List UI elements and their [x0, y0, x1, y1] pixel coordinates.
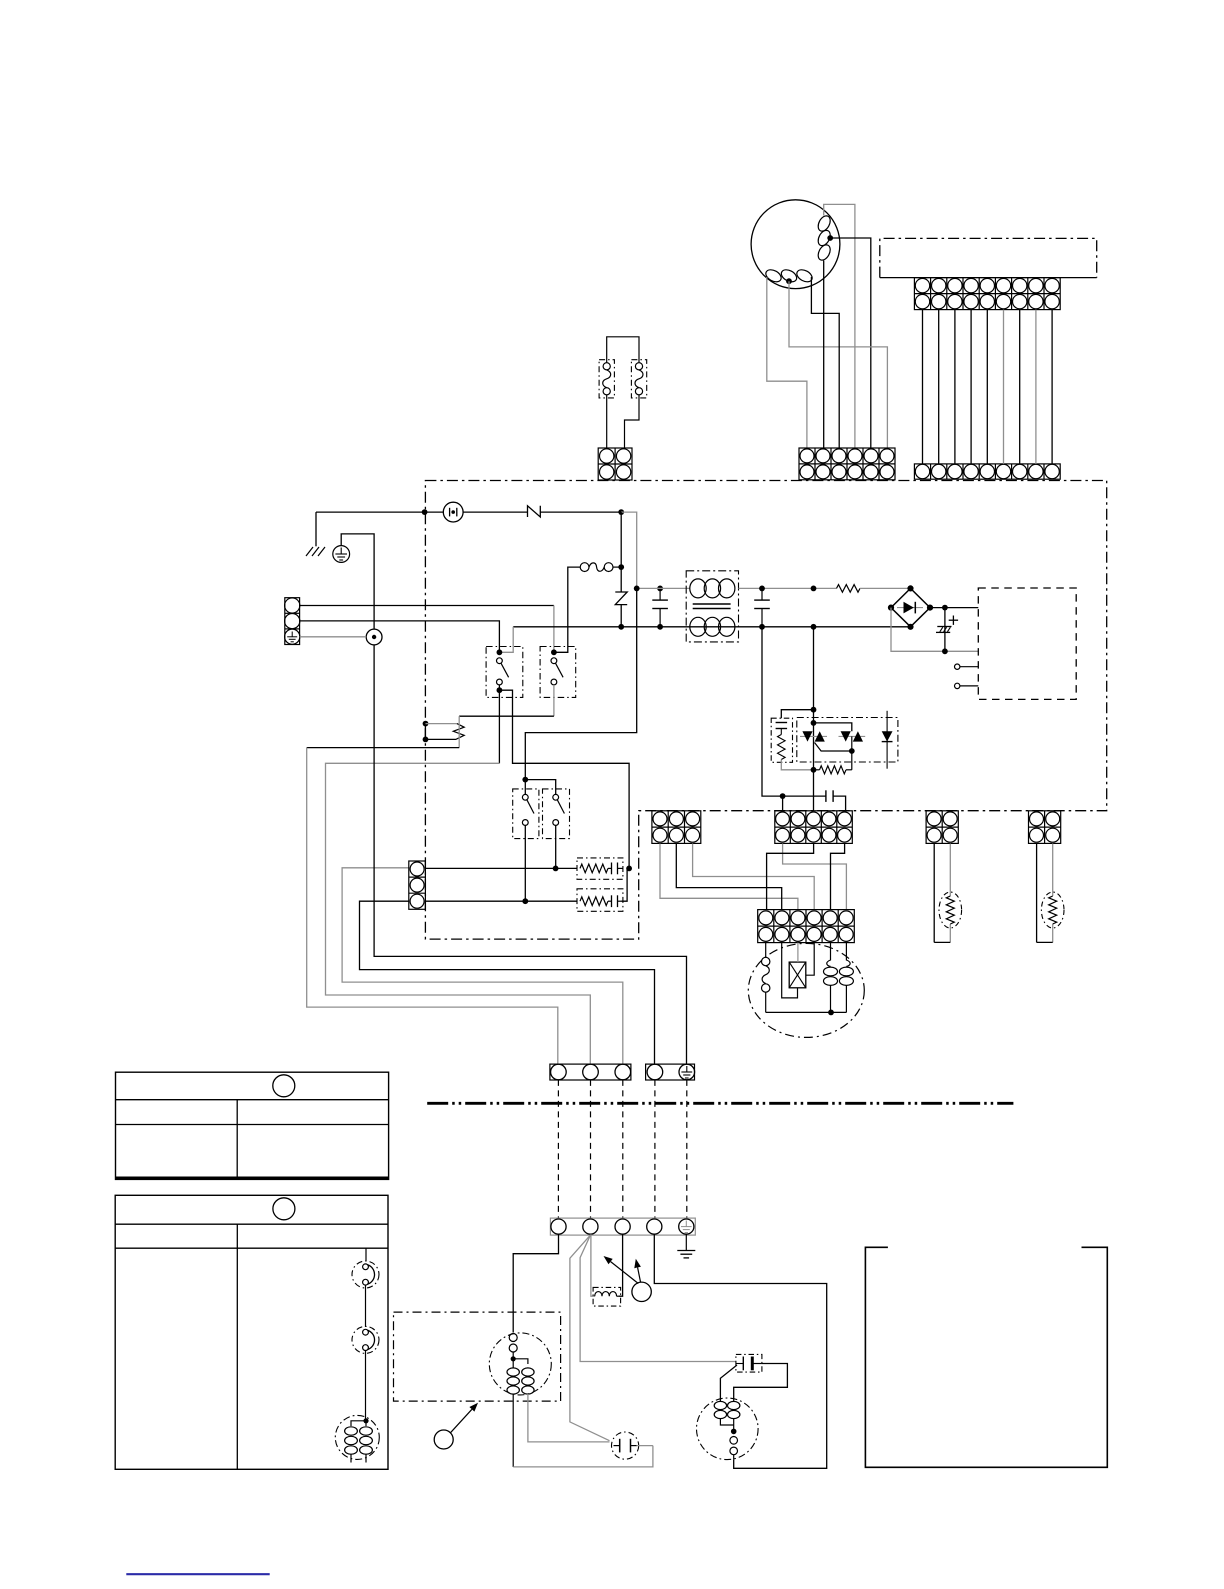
relay switch SW2 box [540, 647, 576, 698]
louvre motor M2 body [697, 1398, 759, 1460]
wire: TB5-3 left run to terminal T4 [360, 901, 655, 1064]
indoor open enclosure [865, 1247, 1107, 1467]
interconnect dashed wire 3 [622, 1080, 624, 1218]
M2 winding A [714, 1401, 726, 1409]
wire: TB5-earth to J1 [300, 636, 367, 638]
compressor terminal block TB8 (6x2) [758, 910, 855, 943]
fuse FUSE1 symbol [443, 502, 463, 522]
wire: TS3-1 to fan motor main [513, 1234, 558, 1332]
connector TB7 (5x2) [775, 811, 853, 844]
table TBL2 frame [115, 1195, 388, 1469]
wire: TB5-1 to switch SW2 [300, 605, 554, 607]
wire: TB3 col6 to TB4 col6 [1003, 310, 1005, 464]
wire: varistor to N bus [620, 605, 622, 627]
junction point J1 (circle-dot) [366, 629, 382, 645]
wire: E1 up and over to junction point J1 [341, 534, 374, 629]
CB1 arrow 1 [611, 1262, 639, 1284]
TBL1 thick bottom [116, 1177, 389, 1180]
louvre capacitor CAP2 box [736, 1354, 762, 1372]
wire: F1 bottom to TB2 col1 [606, 395, 608, 448]
wire: FM tap to TB1 col5 [830, 238, 871, 448]
motor M3 (dash-dot circle) [335, 1415, 379, 1459]
wire: SW1 bottom run to terminal T2 [498, 690, 500, 763]
TBL2 header circle [273, 1198, 295, 1220]
wire: TB6 col1 to compressor protector [660, 844, 798, 910]
earth bars on output [937, 626, 951, 628]
wire: TB3 col4 to TB4 col4 [970, 310, 972, 464]
wire: TB8 col3 to protector [797, 943, 799, 963]
junction dot snubber top [811, 707, 817, 713]
TBL2 column divider [236, 1224, 238, 1469]
wire: TB3 col9 to TB4 col9 [1051, 310, 1053, 464]
wire: choke left to SW2 black entry [556, 567, 580, 652]
wire: triac top link [814, 723, 852, 731]
wire: F1 top to F2 top [607, 337, 639, 363]
wire: bridge - output [891, 608, 978, 652]
wire: SW4 bottom to RC1 line [555, 825, 557, 868]
heater H1 top dot [423, 721, 429, 727]
wire: TS3-2 diagonal a [570, 1235, 610, 1441]
controller PCB box (dash-dot) [978, 588, 1076, 699]
TS3 terminal 2 [583, 1219, 598, 1234]
triac Q2 [839, 735, 866, 737]
CAP2 plates [742, 1357, 744, 1371]
snubber resistor [778, 735, 786, 760]
junction dot SW3 feed [522, 777, 528, 783]
TBL1 column divider [236, 1100, 238, 1180]
defrost heater HA (oval) [939, 892, 962, 928]
wire: N bus [513, 626, 910, 628]
wire: TH1 to TH2 [365, 1285, 367, 1327]
SW1 contact-to-dot wire [498, 685, 500, 690]
wire: border overlay segment [424, 724, 426, 740]
defrost heater HB (oval) [1041, 892, 1064, 928]
heater unit B wires [1036, 844, 1038, 943]
compressor protector (X box) [789, 962, 806, 988]
PCB terminal stub 2 [955, 683, 960, 688]
FM2 top coil [509, 1334, 517, 1342]
wire: TS3-4 loop to louvre motor [654, 1234, 826, 1468]
wire: FM top winding to TB1 col4 [824, 204, 855, 448]
wire: FM main bottom to TB1 col2 [823, 261, 825, 449]
bridge output drop with polarity [944, 608, 946, 652]
thermal fuse TF1 box [593, 1287, 621, 1306]
junction dot L bus [634, 586, 640, 592]
TB5 earth cell symbol [291, 632, 293, 637]
CB1 arrow 2 [638, 1268, 641, 1282]
wire: fuse to N break [463, 511, 527, 513]
junction dot bridge output [942, 605, 948, 611]
wire: L bus to transformer [637, 587, 690, 589]
RC unit RC1 box [577, 858, 623, 879]
motor FM winding tap dot [827, 235, 833, 241]
motor M3 windings [351, 1421, 366, 1426]
junction dot gate [849, 748, 855, 754]
transformer T1 box [686, 571, 738, 642]
wire: snubber bottom link [781, 760, 813, 770]
wire: TB5-3 to RC2 [425, 900, 577, 902]
junction dot main vertical N [811, 624, 817, 630]
TBL2 header line [115, 1223, 388, 1225]
wire: gate down [851, 751, 853, 770]
wire: FM2 aux to capacitor [528, 1394, 610, 1442]
triac box (dash-dot) [797, 718, 898, 763]
relay switch SW1 box [486, 647, 523, 698]
heater H1 element [426, 723, 457, 725]
wire: main vertical to triac section [813, 627, 815, 811]
bridge DB1 diode [897, 607, 923, 609]
thermostat TH2 (dash-dot circle) [352, 1326, 379, 1353]
wire: TB3 col7 to TB4 col7 [1019, 310, 1021, 464]
bridge rectifier DB1 diamond [891, 588, 930, 626]
PCB terminal stub 1 [955, 664, 960, 669]
connector TB2 (2x2) [598, 448, 632, 480]
M2 sense coil [730, 1437, 738, 1445]
junction dot main vertical top [811, 586, 817, 592]
SW3 contact [522, 794, 528, 800]
wire: F2 bottom to TB2 col2 [625, 395, 640, 448]
TBL2 row line [115, 1247, 388, 1249]
indoor ground symbol [685, 1234, 687, 1250]
compressor bottom bus [766, 1011, 847, 1013]
TS3 terminal 1 [551, 1219, 566, 1234]
wire: TB8 col2 to protector bottom [782, 943, 798, 998]
wire: transformer out top [739, 587, 837, 589]
wire: branch to SW4 [525, 780, 555, 795]
SW1 top dot [497, 649, 503, 655]
resistor R1 (series) [837, 585, 861, 593]
junction dot RC1 out [626, 866, 632, 872]
wire: TS3-2 to fuse coil [591, 1234, 595, 1296]
connector TB10 (2x2) heater B [1029, 811, 1061, 844]
interconnect dashed wire 5 [686, 1080, 688, 1218]
wire: CAP2 left diagonal to motor [720, 1365, 737, 1401]
wire: TB5-1 left run to terminal T3 [342, 868, 623, 1064]
snubber box (dash-dot) [771, 718, 792, 762]
M2 tap dot [731, 1429, 737, 1435]
heater unit A wires [933, 844, 935, 943]
TS3 earth terminal [679, 1219, 694, 1234]
junction dot on border [422, 509, 428, 515]
table TBL1 frame [116, 1072, 389, 1179]
interconnect dashed wire 4 [654, 1080, 656, 1218]
diode D1 [886, 711, 888, 769]
switch SW3 box [513, 789, 539, 839]
wire: SW2 bottom long run to terminal T1 [553, 685, 555, 716]
outdoor control box border (dash-dot) [425, 481, 1106, 940]
wire: TB7 col3 to compressor col1 [767, 844, 814, 910]
wire: TB3 col2 to TB4 col2 [938, 310, 940, 464]
ground G1 (frame) [306, 547, 313, 556]
compressor main winding [765, 943, 767, 957]
choke L1 (coil with terminals) [580, 563, 589, 572]
RC1 capacitor [608, 867, 612, 869]
SW1 bottom dot [497, 687, 503, 693]
plus sign [952, 616, 954, 625]
TBL1 header line [116, 1099, 389, 1101]
thermal fuse TF1 coil [595, 1292, 617, 1297]
junction dot N bus varistor [618, 624, 624, 630]
junction dot SW4-RC1 [553, 866, 559, 872]
wire: TB3 col5 to TB4 col5 [986, 310, 988, 464]
wire: FM aux tap to TB1 col6 [789, 281, 887, 448]
compressor winding B [846, 943, 850, 967]
thermal fuse F2 element [635, 363, 642, 370]
motor M3 tap dot [363, 1418, 368, 1423]
junction dot varistor node [618, 509, 624, 515]
wire: thermostat feed [365, 1248, 367, 1261]
connector TB9 (2x2) heater A [926, 811, 958, 844]
wire: C2 line down to TB7 col1 [762, 627, 783, 811]
junction dot choke node [618, 564, 624, 570]
SW1 contact [497, 658, 503, 664]
M2 winding B [728, 1401, 740, 1409]
wire: TB6 col3 to compressor col4 [693, 844, 815, 910]
triac Q1 [800, 735, 827, 737]
FM2 tap dot [511, 1356, 516, 1361]
fan motor FM2 body [489, 1333, 551, 1395]
wire: TB3 col3 to TB4 col3 [954, 310, 956, 464]
unit partition line (chain) [427, 1102, 1013, 1105]
thermal fuse F1 box [599, 360, 614, 398]
junction dot triac top link [811, 720, 817, 726]
wire: node to transformer feed corner [621, 512, 637, 588]
motor FM aux tap dot [786, 278, 792, 284]
SW4 contact [553, 794, 559, 800]
wire: TB8 col4 to protector right [806, 943, 814, 976]
wire: bridge + output [930, 607, 978, 609]
footer link underline [126, 1573, 269, 1575]
wire: SW3 bottom to RC2 line [524, 825, 526, 901]
wire: FM aux left to TB1 col1 [767, 277, 807, 448]
run capacitor CAP1 (dash-dot circle) [612, 1432, 639, 1459]
wire: TF1 to TS3-3 [619, 1234, 623, 1296]
motor FM (outdoor fan motor) body [751, 200, 840, 289]
wire: J1 earth run to terminal T5 [374, 645, 686, 1064]
connector TB4 (9x1) [914, 464, 1060, 479]
junction dot cap node [780, 793, 786, 799]
FM2 windings [512, 1352, 514, 1359]
wire: CAP2 right loop to motor [734, 1364, 788, 1400]
switch SW4 box [543, 789, 570, 839]
wire: FM2 main bottom to capacitor [513, 1446, 653, 1467]
junction dot minus bus [942, 648, 948, 654]
TBL1 row line [116, 1124, 389, 1126]
interconnect dashed wire 1 [557, 1080, 559, 1218]
RC unit RC2 box [577, 889, 623, 912]
wire: TB3 col8 to TB4 col8 [1035, 310, 1037, 464]
wire: N bus drop to SW1 gray entry [502, 627, 513, 653]
compressor bottom dot [828, 1010, 834, 1016]
thermostat TH1 (dash-dot circle) [352, 1261, 379, 1288]
transformer T1 primary coil [690, 579, 706, 598]
wire: TB3 col1 to TB4 col1 [922, 310, 924, 464]
thermal fuse F1 element [603, 363, 610, 370]
callout balloon CB2 [434, 1430, 453, 1449]
SW2 top dot [551, 649, 557, 655]
RC2 capacitor [608, 900, 612, 902]
capacitor C2 [759, 586, 765, 592]
SW2 contact [551, 658, 557, 664]
compressor winding A [827, 943, 831, 967]
wire: supply line L [316, 511, 444, 513]
wire: snubber top link [781, 710, 813, 719]
transformer T1 secondary coil [690, 617, 706, 636]
indoor terminal strip TS3 [550, 1218, 695, 1235]
wire: node down to varistor [620, 512, 622, 592]
wire: N break to varistor node [540, 511, 621, 513]
connector TB6 (3x2) [652, 811, 701, 844]
wire: TB5-2 to switch SW1 [300, 621, 500, 652]
triac gate wire [815, 743, 852, 752]
motor FM aux winding (horizontal coil) [764, 267, 783, 284]
terminal block TB5 (3x1 vertical) [285, 598, 300, 645]
varistor ZNR1 (Z symbol) [615, 592, 627, 605]
wire: RC2 out up to RC1 node [622, 868, 628, 901]
capacitor C1 [659, 588, 661, 600]
wire: choke right to node [613, 566, 621, 568]
thermal fuse F2 box [631, 360, 646, 398]
wire: TS3-2 diagonal b [580, 1235, 736, 1361]
TS3 terminal 4 [647, 1219, 662, 1234]
capacitor C3 [783, 795, 826, 797]
TS2 earth symbol [686, 1066, 688, 1072]
wire: TB7 col5 to compressor col5 [831, 844, 845, 910]
TS3 terminal 3 [615, 1219, 630, 1234]
fan motor box (dash-dot) [394, 1312, 561, 1401]
compressor CM body (dash-dot circle) [748, 943, 864, 1037]
motor FM main winding (vertical coil) [816, 214, 833, 233]
RC1 resistor [580, 864, 608, 873]
heater H1 bottom dot [423, 737, 429, 743]
snubber capacitor [776, 722, 788, 724]
wire: branch to SW3 [524, 780, 526, 795]
wire: L bus feed to SW3/SW4 [525, 588, 636, 779]
terminal strip TS1 (3 terminals) [550, 1064, 631, 1080]
wire: FM aux right to TB1 col3 [811, 277, 839, 448]
wire: TB6 col2 to compressor col2 [676, 844, 781, 910]
TBL1 header circle [273, 1075, 295, 1097]
wire: TH2 to motor M3 [365, 1351, 367, 1421]
connector TB1 (6x2) [799, 448, 895, 480]
transformer T1 core [693, 603, 731, 605]
wire: SW1 bottom to RC1 node [499, 690, 629, 868]
symbol N (supply neutral break) [528, 506, 541, 517]
interconnect dashed wire 2 [590, 1080, 592, 1218]
terminal strip TS2 (2 terminals) [646, 1064, 695, 1080]
junction dot SW3-RC2 [522, 898, 528, 904]
callout balloon CB1 [632, 1282, 651, 1301]
wire: TB7 col1 to compressor col6 [783, 844, 847, 910]
wire: TB5-1 to RC1 [425, 867, 577, 869]
wire: R1 to bridge [860, 587, 911, 589]
wire: supply left drop to ground [315, 512, 317, 546]
connector TB3 (9x2) [914, 278, 1060, 310]
gate resistor R2 [814, 769, 820, 771]
RC2 resistor [580, 897, 608, 906]
junction dot gate node [811, 767, 817, 773]
terminal block TB5b (1x3 vertical) [409, 861, 426, 909]
earth terminal E1 (circled earth) [333, 546, 350, 563]
CB2 arrow [450, 1409, 472, 1433]
dashed box B1 (remote controller) [880, 238, 1097, 277]
